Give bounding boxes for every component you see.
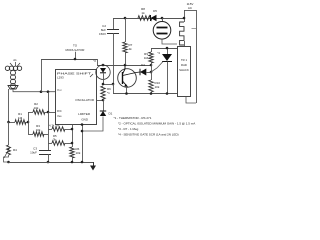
svg-text:A1: A1 <box>13 58 17 62</box>
resistor R4 <box>48 129 52 131</box>
svg-text:*1: *1 <box>107 91 110 95</box>
node R9 bottom <box>150 64 153 67</box>
svg-text:150V: 150V <box>99 32 106 36</box>
ground <box>93 162 95 166</box>
antenna A1 <box>5 58 21 89</box>
SCR cathode wire <box>167 62 169 94</box>
svg-text:L293: L293 <box>57 76 64 80</box>
node rail SCR <box>166 92 169 95</box>
wire lower rail y93.5 <box>113 93 177 95</box>
diode D5 <box>150 15 152 21</box>
svg-text:1k: 1k <box>141 11 145 15</box>
wire to modulator stem <box>75 52 77 59</box>
wire x82 from box to rail <box>82 125 84 163</box>
phototransistor Q1 <box>118 69 137 88</box>
wire top AC y18 <box>113 18 184 20</box>
node lamp top <box>161 17 164 20</box>
wire step down at box corner <box>97 59 99 65</box>
pot arrow <box>4 148 10 158</box>
wire R2 to box pin <box>48 112 55 114</box>
wire x48 vertical <box>48 112 50 151</box>
node M1 <box>74 58 77 61</box>
wire ground rail <box>9 162 94 164</box>
svg-text:*4 - SENSITIVE GATE SCR (1A an: *4 - SENSITIVE GATE SCR (1A and 2N LED) <box>118 133 179 137</box>
wire x8 down to pot <box>8 122 10 145</box>
svg-text:*2 - OPTICAL ISOLATED MINIMUM: *2 - OPTICAL ISOLATED MINIMUM GAIN - 1.5… <box>118 122 195 126</box>
tick mark L1 <box>192 28 197 30</box>
svg-text:4k: 4k <box>129 47 133 51</box>
resistor R9 <box>151 48 153 52</box>
resistor R7 <box>123 42 127 53</box>
wire x28 vertical <box>28 112 30 134</box>
node M2 led top <box>102 64 105 67</box>
SCR gate wire <box>151 62 163 73</box>
resistor R1 <box>9 122 16 124</box>
wire C3 to rail <box>48 154 50 162</box>
potentiometer R11 <box>7 145 11 155</box>
wire left rail down <box>8 89 10 122</box>
wire lamp bottom <box>162 39 177 44</box>
svg-text:R/C: R/C <box>57 109 62 113</box>
node rail R10 <box>150 92 153 95</box>
svg-text:D5: D5 <box>153 9 157 13</box>
node led bottom <box>102 83 105 86</box>
wire x113 to rail <box>113 84 115 94</box>
wire R7 branch <box>125 18 127 42</box>
wire modulator rail y59 <box>41 59 97 61</box>
svg-text:10k: 10k <box>36 128 41 132</box>
wire x41 modulator drop <box>41 59 43 92</box>
svg-text:10k: 10k <box>76 151 81 155</box>
node V2 <box>47 90 50 93</box>
diode D4 <box>139 69 141 76</box>
wire x50 to R2 <box>48 92 50 112</box>
node gate <box>150 71 153 74</box>
wire emitter bottom <box>126 87 128 94</box>
svg-text:SHACK: SHACK <box>179 68 189 72</box>
svg-text:*3 - R7 - 1 Meg: *3 - R7 - 1 Meg <box>118 127 139 131</box>
thermistor T1 circle <box>162 18 164 22</box>
svg-text:OSCILLATOR: OSCILLATOR <box>75 98 95 102</box>
wire R9 to gate node <box>151 63 153 72</box>
svg-text:GND: GND <box>81 118 89 122</box>
wire R10 to rail <box>151 92 153 94</box>
node rail C2 <box>112 83 115 86</box>
resistor R10 <box>151 72 153 80</box>
svg-text:LIMITER: LIMITER <box>78 112 91 116</box>
node M3 collector <box>124 64 127 67</box>
svg-text:*1 - THERMISTOR - RS 271: *1 - THERMISTOR - RS 271 <box>114 116 152 120</box>
node R7 top <box>124 17 127 20</box>
svg-text:TO: TO <box>73 44 78 48</box>
node x82 join <box>81 130 84 133</box>
wire led node to C2 line <box>103 84 113 86</box>
svg-text:D1: D1 <box>109 112 113 116</box>
wire rail y65 <box>97 65 151 67</box>
node pot rail <box>7 161 10 164</box>
wire R7 to collector <box>125 53 127 65</box>
node R1 left <box>7 121 10 124</box>
svg-text:1M: 1M <box>18 116 23 120</box>
svg-text:10k: 10k <box>155 85 160 89</box>
optocoupler LED D2 <box>96 65 110 79</box>
wire C2 down <box>113 33 115 84</box>
svg-text:*4: *4 <box>157 51 160 55</box>
svg-text:TR 1: TR 1 <box>181 58 188 62</box>
load box T1 <box>178 47 191 97</box>
wire antenna to node <box>13 89 55 92</box>
resistor R8 <box>138 16 152 21</box>
resistor R6 thermistor <box>101 86 105 99</box>
wire x72 from box <box>72 125 74 148</box>
pot wiper loop <box>4 155 9 162</box>
wire y48 <box>151 48 177 50</box>
svg-text:10uF: 10uF <box>30 151 37 155</box>
wire box bottom hook <box>186 97 196 103</box>
capacitor C2 branch <box>113 18 115 29</box>
heater element <box>184 10 196 12</box>
wire led chain <box>103 74 105 85</box>
capacitor C3 <box>39 150 51 152</box>
resistor R6b <box>70 147 74 158</box>
svg-text:D4: D4 <box>141 63 145 67</box>
resistor R3 <box>28 134 33 136</box>
wire R6 to D1 <box>103 99 105 111</box>
wire R6b to rail <box>72 158 74 162</box>
svg-text:1M: 1M <box>144 56 149 60</box>
svg-text:RAD: RAD <box>181 63 187 67</box>
svg-text:4.7k 1%: 4.7k 1% <box>49 124 60 128</box>
wire D1 down to box drop <box>82 117 103 132</box>
svg-text:*2: *2 <box>93 59 96 63</box>
svg-text:MODULATOR: MODULATOR <box>66 48 86 52</box>
node V1 <box>40 90 43 93</box>
op-amp U1 oscillator IC box <box>56 70 97 125</box>
resistor R5 <box>48 143 52 145</box>
wire box pin to led chain <box>97 100 104 102</box>
svg-text:10k: 10k <box>34 106 39 110</box>
svg-text:R4: R4 <box>13 148 17 152</box>
node R2 right <box>47 111 50 114</box>
resistor R2 <box>28 112 33 114</box>
node R1 right <box>27 121 30 124</box>
diode D1 <box>100 110 106 112</box>
